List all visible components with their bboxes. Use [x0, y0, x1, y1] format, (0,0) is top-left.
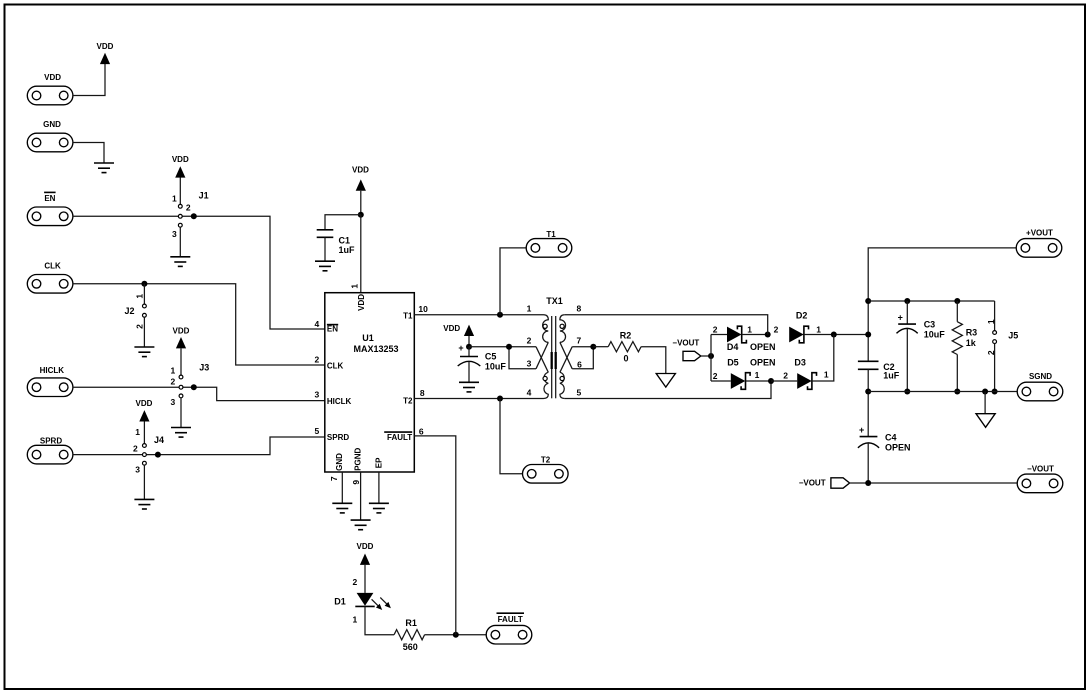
connector VDD (input) [27, 73, 73, 105]
svg-text:T1: T1 [403, 312, 413, 321]
capacitor C4 (OPEN) [858, 425, 911, 453]
wire VDD stem to D1 anode [364, 565, 366, 593]
svg-text:CLK: CLK [44, 262, 61, 271]
svg-text:J5: J5 [1008, 330, 1018, 340]
svg-text:OPEN: OPEN [750, 358, 776, 368]
svg-text:J4: J4 [154, 435, 164, 445]
junction C5 top [466, 344, 472, 350]
power symbol VDD (C1 / U1 pin 1) [352, 165, 369, 190]
svg-text:10: 10 [418, 304, 428, 314]
svg-text:2: 2 [135, 324, 145, 329]
junction main vertical / D2 row [865, 332, 871, 338]
wire node to D3 anode [771, 380, 797, 382]
svg-text:1: 1 [986, 319, 996, 324]
ground (C5) [459, 382, 479, 392]
svg-text:2: 2 [527, 336, 532, 346]
connector EN [27, 192, 73, 225]
svg-text:560: 560 [403, 642, 418, 652]
svg-text:VDD: VDD [136, 399, 153, 408]
junction J1 pin 2 [191, 213, 197, 219]
svg-text:9: 9 [351, 480, 361, 485]
svg-text:OPEN: OPEN [885, 443, 911, 453]
wire transformer pin 7 stub [572, 347, 593, 369]
svg-text:C1: C1 [339, 236, 351, 246]
svg-text:PGND: PGND [354, 447, 363, 470]
connector SGND [1017, 372, 1063, 401]
svg-text:6: 6 [577, 360, 582, 370]
svg-text:−VOUT: −VOUT [672, 338, 699, 347]
junction VDD / C1 / pin 1 [358, 212, 364, 218]
junction T2 tap [497, 396, 503, 402]
net flag -VOUT (transformer side) [672, 338, 700, 360]
svg-text:OPEN: OPEN [750, 342, 776, 352]
svg-text:2: 2 [352, 577, 357, 587]
connector FAULT [486, 613, 532, 644]
junction diode bridge left node [708, 353, 714, 359]
wire CLK junction to J2 pin 1 [143, 284, 145, 304]
connector CLK [27, 262, 73, 294]
svg-text:T1: T1 [546, 230, 556, 239]
wire R1 to FAULT connector [425, 634, 487, 636]
wire transformer pin 5 to D5 node [565, 381, 771, 399]
resistor R2 [608, 331, 641, 364]
power symbol VDD (J4) [136, 399, 153, 422]
svg-text:VDD: VDD [97, 42, 114, 51]
svg-text:J2: J2 [124, 306, 134, 316]
svg-text:1: 1 [824, 370, 829, 380]
svg-text:U1: U1 [362, 333, 374, 343]
svg-text:2: 2 [314, 355, 319, 365]
svg-text:GND: GND [335, 453, 344, 471]
ground triangle (SGND) [976, 414, 995, 428]
junction C4 / -VOUT row [865, 480, 871, 486]
power symbol VDD (J3) [173, 326, 190, 348]
bottom bus wire [868, 391, 1017, 393]
wire C2 to bottom bus / C4 [867, 369, 869, 436]
wire VDD connector to VDD symbol [73, 64, 105, 96]
wire U1 GND pin to ground [341, 472, 343, 503]
svg-text:2: 2 [170, 377, 175, 387]
svg-text:R1: R1 [405, 618, 417, 628]
wire transformer pin 2 stub [509, 347, 536, 369]
svg-text:1: 1 [170, 365, 175, 375]
ground (U1 PGND) [351, 520, 371, 530]
junction CLK / J2 [141, 281, 147, 287]
svg-text:1: 1 [135, 427, 140, 437]
svg-text:C4: C4 [885, 432, 897, 442]
svg-text:1k: 1k [966, 338, 977, 348]
svg-text:2: 2 [713, 324, 718, 334]
wire +VOUT branch [868, 248, 1016, 361]
svg-text:VDD: VDD [44, 73, 61, 82]
op-amp U1 MAX13253 [325, 293, 415, 472]
resistor R1 [394, 618, 425, 652]
wire HICLK net: connector to J3 to U1 pin 3 [73, 387, 325, 400]
svg-text:GND: GND [43, 120, 61, 129]
svg-text:1: 1 [747, 324, 752, 334]
svg-text:4: 4 [314, 319, 319, 329]
wire C3 to bottom bus [906, 329, 908, 392]
wire D2 cathode to output node [804, 334, 868, 336]
svg-text:2: 2 [713, 371, 718, 381]
wire T2 tap to T2 connector [500, 399, 523, 474]
svg-text:1: 1 [755, 370, 760, 380]
svg-text:MAX13253: MAX13253 [353, 344, 398, 354]
wire R2 to analog ground [641, 347, 666, 374]
svg-text:0: 0 [623, 354, 628, 364]
wire junction to C1 [325, 215, 361, 230]
wire CLK net: connector to J2 to U1 pin 2 [73, 284, 325, 365]
wire pin 7 junction to R2 [593, 346, 608, 348]
capacitor C3 [897, 313, 946, 340]
wire SPRD net: connector to J4 to U1 pin 5 [73, 437, 325, 455]
svg-text:VDD: VDD [443, 324, 460, 333]
wire junction to U1 pin 1 [360, 215, 362, 293]
wire U1 T1 pin 10 to transformer pin 1 [414, 314, 543, 316]
svg-text:1: 1 [527, 304, 532, 314]
svg-text:−VOUT: −VOUT [1027, 465, 1054, 474]
capacitor C5 [458, 343, 507, 371]
capacitor C1 [317, 230, 355, 255]
svg-text:EN: EN [327, 325, 338, 334]
wire bridge left vertical [710, 335, 712, 382]
wire D5 cathode to node [746, 380, 772, 382]
svg-text:D5: D5 [727, 358, 739, 368]
junction R3 bottom [954, 389, 960, 395]
connector +VOUT [1016, 229, 1062, 257]
svg-text:10uF: 10uF [924, 329, 946, 339]
ground (top-left) [94, 163, 114, 173]
svg-text:VDD: VDD [357, 542, 374, 551]
junction C3 bottom [904, 389, 910, 395]
svg-text:J3: J3 [199, 363, 209, 373]
svg-text:1uF: 1uF [339, 245, 356, 255]
power symbol VDD (D1) [357, 542, 374, 565]
svg-text:+: + [458, 343, 463, 353]
svg-text:1: 1 [352, 615, 357, 625]
power symbol VDD (top-left) [97, 42, 114, 64]
junction R1 / FAULT line [453, 632, 459, 638]
LED D1 [334, 593, 391, 610]
junction C3 top [904, 298, 910, 304]
wire flag to diode bridge node [701, 355, 711, 357]
ground (U1 GND) [332, 503, 352, 513]
connector T1 [526, 230, 572, 257]
wire J1 pin 3 to ground [179, 227, 181, 257]
wire VDD arrow stem to J1 pin 1 [179, 178, 181, 205]
wire ground stub [984, 392, 986, 414]
wire J3 pin 3 to ground [180, 398, 182, 428]
junction transformer pin 7 / R2 [590, 344, 596, 350]
connector GND [27, 120, 73, 152]
jumper J4 [133, 427, 164, 474]
wire -VOUT row [849, 482, 1017, 484]
net flag -VOUT (bottom) [799, 478, 850, 488]
svg-text:3: 3 [314, 389, 319, 399]
svg-text:VDD: VDD [173, 326, 190, 335]
wire U1 T2 pin 8 to transformer pin 4 [414, 398, 543, 400]
wire U1 PGND pin to ground [360, 472, 362, 520]
junction T1 tap [497, 312, 503, 318]
ground (C1) [315, 261, 335, 271]
junction J4 pin 2 [155, 452, 161, 458]
svg-text:1: 1 [135, 294, 145, 299]
svg-text:1: 1 [350, 284, 360, 289]
svg-text:EN: EN [44, 194, 55, 203]
wire bridge node to D5 anode [711, 380, 731, 382]
wire U1 FAULT pin 6 to junction [414, 436, 456, 635]
top bus wire [868, 300, 994, 302]
ground (J1) [170, 257, 190, 267]
svg-text:5: 5 [577, 388, 582, 398]
svg-text:8: 8 [420, 388, 425, 398]
ground triangle (R2) [656, 374, 675, 388]
svg-text:C3: C3 [924, 320, 936, 330]
svg-text:2: 2 [783, 371, 788, 381]
wire J5 top stub [994, 301, 996, 331]
wire node to D4 anode [711, 334, 727, 336]
junction transformer pin 2 node [506, 344, 512, 350]
wire J5 bottom stub [994, 344, 996, 392]
svg-text:+VOUT: +VOUT [1026, 229, 1053, 238]
ground (J4) [134, 499, 154, 509]
svg-text:SPRD: SPRD [327, 433, 349, 442]
svg-text:+: + [859, 425, 864, 435]
wire C5 to ground [468, 361, 470, 382]
svg-text:R2: R2 [620, 331, 632, 341]
transformer TX1 [527, 296, 583, 398]
junction J5 / bottom bus [992, 389, 998, 395]
diode D5 (Schottky, OPEN) [727, 358, 775, 390]
svg-text:SGND: SGND [1029, 372, 1052, 381]
wire transformer pin 8 to D4/D2 node [565, 315, 768, 335]
wire C4 to -VOUT row [867, 443, 869, 483]
junction R3 top [954, 298, 960, 304]
wire VDD arrow stem to J3 pin 1 [180, 348, 182, 375]
svg-text:T2: T2 [541, 455, 551, 464]
svg-text:3: 3 [135, 464, 140, 474]
wire C5 junction to transformer pin 2 node [469, 346, 509, 348]
svg-text:7: 7 [577, 336, 582, 346]
wire GND connector to ground [73, 143, 104, 164]
svg-text:2: 2 [186, 203, 191, 213]
svg-text:3: 3 [170, 397, 175, 407]
junction J3 pin 2 [191, 384, 197, 390]
wire EN net: connector to J1 to U1 pin 4 [73, 216, 325, 329]
svg-text:6: 6 [419, 426, 424, 436]
svg-text:R3: R3 [966, 328, 978, 338]
connector T2 [523, 455, 569, 483]
diode D3 (Schottky) [794, 358, 816, 390]
junction main vertical / top bus [865, 298, 871, 304]
connector HICLK [27, 366, 73, 396]
svg-text:T2: T2 [403, 397, 413, 406]
power symbol VDD (C5) [443, 324, 474, 336]
wire T1 tap to T1 connector [500, 248, 526, 315]
svg-text:8: 8 [577, 304, 582, 314]
power symbol VDD (J1) [172, 155, 189, 177]
svg-text:FAULT: FAULT [387, 433, 412, 442]
diode D4 (Schottky, OPEN) [727, 326, 776, 352]
wire D1 cathode to R1 [365, 606, 394, 634]
wire D3 cathode up to output node [812, 335, 834, 382]
wire J4 pin 3 to ground [143, 465, 145, 499]
svg-text:1: 1 [816, 325, 821, 335]
jumper J1 [172, 190, 209, 239]
svg-text:+: + [898, 313, 903, 323]
svg-text:1uF: 1uF [883, 371, 900, 381]
svg-text:7: 7 [329, 476, 339, 481]
junction D4 / top wire [765, 332, 771, 338]
wire VDD stem to C5 junction [468, 336, 470, 347]
wire C3 stub [906, 301, 908, 324]
ground (J3) [171, 428, 191, 438]
wire J2 pin 2 to ground [143, 317, 145, 347]
svg-text:D3: D3 [794, 358, 806, 368]
svg-text:FAULT: FAULT [498, 615, 523, 624]
junction D2 out / D3 riser [831, 332, 837, 338]
jumper J5 [986, 319, 1018, 355]
jumper J2 [124, 294, 146, 329]
svg-text:3: 3 [172, 229, 177, 239]
svg-text:2: 2 [133, 443, 138, 453]
svg-text:HICLK: HICLK [327, 397, 352, 406]
svg-text:5: 5 [314, 426, 319, 436]
svg-text:TX1: TX1 [546, 296, 563, 306]
connector -VOUT [1017, 465, 1063, 493]
capacitor C2 [858, 361, 900, 380]
resistor R3 [952, 301, 977, 392]
svg-text:J1: J1 [199, 190, 209, 200]
svg-text:HICLK: HICLK [40, 366, 65, 375]
junction ground stub [982, 389, 988, 395]
wire VDD stem to junction [360, 191, 362, 215]
svg-text:CLK: CLK [327, 361, 344, 370]
ground (U1 EP) [369, 503, 389, 513]
wire D4 cathode to node [742, 334, 768, 336]
svg-text:2: 2 [774, 324, 779, 334]
svg-text:3: 3 [527, 359, 532, 369]
svg-text:D1: D1 [334, 597, 346, 607]
connector SPRD [27, 436, 73, 464]
svg-text:−VOUT: −VOUT [799, 479, 826, 488]
wire C1 to ground [324, 237, 326, 261]
wire U1 EP pin to ground [378, 472, 380, 503]
wire VDD arrow stem to J4 pin 1 [143, 422, 145, 444]
svg-text:D4: D4 [727, 342, 739, 352]
svg-text:4: 4 [527, 388, 532, 398]
svg-text:VDD: VDD [357, 294, 366, 311]
svg-text:D2: D2 [796, 310, 808, 320]
svg-text:SPRD: SPRD [40, 436, 62, 445]
jumper J3 [170, 363, 209, 407]
svg-text:10uF: 10uF [485, 362, 507, 372]
svg-text:C5: C5 [485, 351, 497, 361]
svg-text:VDD: VDD [352, 165, 369, 174]
junction main vertical / bottom bus [865, 389, 871, 395]
junction D5 / D3 [768, 378, 774, 384]
svg-text:EP: EP [375, 457, 384, 468]
svg-text:VDD: VDD [172, 155, 189, 164]
svg-text:1: 1 [172, 193, 177, 203]
diode D2 (Schottky) [789, 310, 808, 342]
ground (J2) [134, 347, 154, 357]
